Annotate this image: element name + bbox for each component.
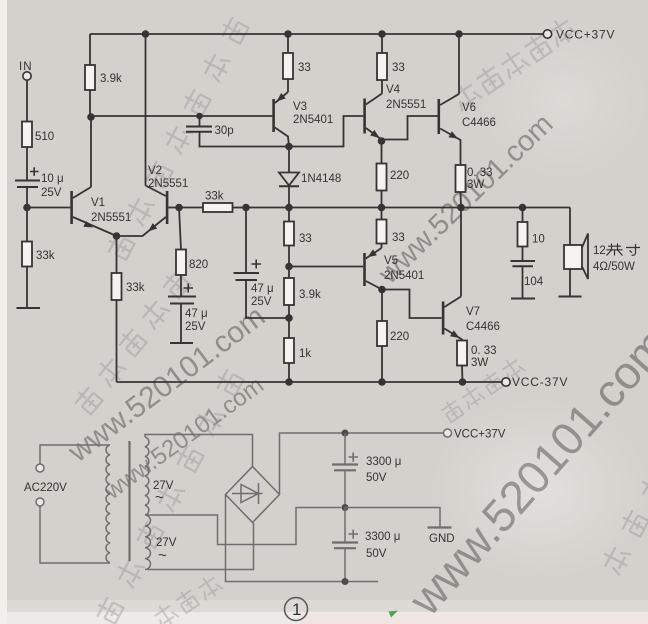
wire C-10u to input node <box>26 187 28 208</box>
label AC220V <box>24 482 67 494</box>
wire 30p top lead <box>199 116 201 127</box>
label 104 <box>524 276 544 288</box>
node output V6 <box>457 204 465 212</box>
watermark D CJK right-center diagonal <box>449 14 579 113</box>
svg-text:220: 220 <box>390 331 409 343</box>
label 10u <box>41 173 64 185</box>
wire input node down to 33k <box>26 208 28 242</box>
wire input node to V1 base <box>27 207 70 209</box>
wire bridge plus output <box>280 433 444 495</box>
svg-text:IN: IN <box>19 61 33 73</box>
transistor V5 2N5401 <box>363 248 382 290</box>
label 33k tail <box>126 282 145 294</box>
label V4 <box>386 84 401 96</box>
label C4466 V7 <box>466 321 500 333</box>
label 47u left <box>185 308 208 320</box>
wire mid rail node B to diode node <box>246 207 289 209</box>
svg-text:33k: 33k <box>36 250 55 262</box>
terminal AC220V bottom <box>36 498 44 506</box>
top VCC+37V rail wire <box>90 33 543 35</box>
wire tail to 33k <box>116 236 118 273</box>
svg-text:1k: 1k <box>299 348 311 360</box>
label 2N5401 V5 <box>384 270 424 282</box>
wire primary bottom <box>40 506 110 563</box>
capacitor 3300u lower <box>332 530 358 549</box>
watermark A2 CJK mid-left diagonal <box>71 268 192 416</box>
watermark I CJK near V7 <box>439 355 526 423</box>
svg-text:2N5551: 2N5551 <box>91 212 131 224</box>
node dot V6 collector on top rail <box>455 30 463 38</box>
watermark K CJK bottom center <box>151 572 224 624</box>
ground speaker <box>559 296 582 298</box>
psu labels <box>24 429 506 565</box>
svg-text:C4466: C4466 <box>466 321 500 333</box>
label 50V lower faint <box>366 548 387 560</box>
ground GND <box>428 526 452 528</box>
svg-text:510: 510 <box>35 131 54 143</box>
label 3300u lower <box>365 531 400 543</box>
wire gnd branch <box>345 508 440 528</box>
transformer primary winding <box>106 445 110 563</box>
label 510 <box>35 131 54 143</box>
label 1k <box>299 348 311 360</box>
label 4ohm/50W <box>593 261 635 273</box>
label 33 V3 <box>298 62 311 74</box>
svg-text:3W: 3W <box>467 179 484 191</box>
wire IN to 510 <box>26 80 28 122</box>
wire 33k fb to node B <box>233 207 247 209</box>
terminal VCC+37V psu <box>444 429 452 437</box>
wire 820 top <box>179 208 181 250</box>
svg-text:820: 820 <box>189 259 208 271</box>
label 3.9k <box>100 73 122 85</box>
node 33/3.9k <box>285 263 293 271</box>
svg-text:3.9k: 3.9k <box>299 289 321 301</box>
label 3W upper <box>467 179 484 191</box>
label 0.33 upper <box>467 167 493 179</box>
node emitter tail <box>113 232 121 240</box>
transistor V3 2N5401 <box>272 92 289 147</box>
resistor 220 upper <box>377 141 387 208</box>
label 33k feedback <box>205 191 224 203</box>
svg-text:V2: V2 <box>148 165 162 177</box>
wire cap1 top lead <box>344 433 346 465</box>
node 1k on negative rail <box>285 378 293 386</box>
wire 3.9k top drop <box>89 34 91 65</box>
node gnd mid <box>342 504 349 511</box>
node input <box>23 204 31 212</box>
wire 104 to ground <box>522 266 524 298</box>
wire secondary bottom <box>147 523 254 570</box>
amplifier labels <box>19 28 640 390</box>
transformer secondary winding lower <box>145 515 150 570</box>
label 3W lower <box>471 357 488 369</box>
figure number 1 circled <box>285 598 308 621</box>
label 50V upper <box>366 472 387 484</box>
transistor V2 2N5551 <box>117 34 180 236</box>
label 27V lower <box>156 537 177 564</box>
label V7 <box>466 306 480 318</box>
svg-text:~: ~ <box>158 547 167 564</box>
label 2N5551 V2 <box>148 178 188 190</box>
resistor 33k feedback <box>203 203 233 212</box>
node diode on mid rail <box>285 204 293 212</box>
svg-text:220: 220 <box>390 170 409 182</box>
svg-text:25V: 25V <box>251 296 272 308</box>
wire 33k to ground <box>26 267 28 309</box>
resistor 33k tail <box>112 273 122 300</box>
resistor 1k <box>284 318 294 382</box>
svg-text:25V: 25V <box>41 187 62 199</box>
wire secondary top to bridge <box>145 435 253 467</box>
node V2 base <box>175 204 183 212</box>
resistor 33 (V3 emitter) <box>283 34 293 92</box>
wire V5 base <box>289 266 363 268</box>
svg-text:C4466: C4466 <box>462 117 496 129</box>
label 33 V4 <box>392 62 405 74</box>
resistor 510 <box>22 122 32 148</box>
label C4466 V6 <box>462 117 496 129</box>
node 220 on negative rail <box>378 378 386 386</box>
label 27V upper <box>153 480 174 506</box>
label 3300u upper <box>366 456 401 468</box>
wire primary top <box>40 445 110 464</box>
label 12inch speaker <box>593 244 640 258</box>
node 30p tap <box>196 113 203 120</box>
svg-text:1: 1 <box>292 600 301 619</box>
resistor 3.9k mid chain <box>284 267 294 319</box>
svg-text:GND: GND <box>429 533 455 545</box>
label 10 <box>532 234 545 246</box>
svg-text:~: ~ <box>155 489 164 506</box>
svg-text:2N5401: 2N5401 <box>384 270 424 282</box>
svg-text:3W: 3W <box>471 357 488 369</box>
label 820 <box>189 259 208 271</box>
svg-text:33k: 33k <box>205 191 224 203</box>
transistor V6 C4466 <box>438 34 461 143</box>
svg-text:10 μ: 10 μ <box>41 173 64 185</box>
svg-text:0. 33: 0. 33 <box>467 167 493 179</box>
label V5 <box>384 255 398 267</box>
ground zobel <box>511 298 535 300</box>
label 0.33 lower <box>471 345 497 357</box>
wire cap1 to gnd node <box>344 470 346 507</box>
terminal VCC+37V <box>543 30 551 38</box>
svg-text:2N5401: 2N5401 <box>293 114 333 126</box>
terminal VCC-37V <box>502 378 510 386</box>
wire cap2 to negative node <box>344 548 346 581</box>
label 2N5551 V4 <box>386 99 426 111</box>
wire 30p bottom to V3 collector node <box>200 132 290 147</box>
label V6 <box>462 102 476 114</box>
negative rail wire <box>117 381 503 383</box>
wire V5 collector to V7 base <box>382 290 442 319</box>
label 220 upper <box>390 170 409 182</box>
label 25V input <box>41 187 62 199</box>
svg-text:33: 33 <box>392 232 405 244</box>
terminal IN <box>23 72 31 80</box>
wire 510 to C-10u <box>26 147 28 181</box>
wire 33k tail to negative rail <box>116 300 118 382</box>
label 30p <box>215 125 234 137</box>
label 1N4148 <box>301 173 341 185</box>
capacitor 3300u/50V upper <box>332 453 358 471</box>
svg-text:104: 104 <box>524 276 544 288</box>
resistor 0.33 3W upper <box>456 143 466 208</box>
node B (47u fb) <box>242 204 250 212</box>
label V2 <box>148 165 162 177</box>
label VCC-37V <box>512 375 568 389</box>
capacitor 47u/25V left <box>168 284 196 304</box>
transistor V4 2N5551 <box>363 94 382 142</box>
svg-text:30p: 30p <box>215 125 234 137</box>
svg-text:12: 12 <box>593 245 606 257</box>
svg-text:25V: 25V <box>185 321 206 333</box>
resistor 33 (V4 collector) <box>377 34 387 94</box>
label 33k input <box>36 250 55 262</box>
resistor 820 <box>176 250 186 276</box>
svg-text:33k: 33k <box>126 282 145 294</box>
resistor 220 lower <box>377 290 387 383</box>
transistor V1 2N5551 <box>70 117 116 236</box>
resistor 33 mid chain <box>284 208 294 267</box>
wire node B to 47u fb <box>245 208 247 274</box>
svg-text:V1: V1 <box>91 197 105 209</box>
svg-text:V4: V4 <box>386 84 401 96</box>
label 220 lower <box>390 331 409 343</box>
node 220 on mid rail <box>378 204 386 212</box>
wire node A to V3 base <box>91 115 272 117</box>
wire 3.9k to node A <box>90 90 91 117</box>
svg-text:VCC-37V: VCC-37V <box>512 375 568 389</box>
ground 47u left <box>170 342 193 344</box>
node V4 emitter <box>378 137 386 145</box>
svg-text:VCC+37V: VCC+37V <box>454 429 506 441</box>
svg-text:V3: V3 <box>293 101 307 113</box>
capacitor 47u/25V feedback <box>234 260 262 281</box>
capacitor 10u/25V <box>15 167 40 187</box>
label 3.9k mid <box>299 289 321 301</box>
transformer core <box>128 441 130 561</box>
label 25V fb <box>251 296 272 308</box>
wire V3 node to V4 base <box>289 116 363 147</box>
wire bridge minus output <box>226 495 379 582</box>
wire cap2 top lead <box>344 508 346 543</box>
node dot 33/V3 on top rail <box>284 30 292 38</box>
label GND <box>429 533 455 545</box>
svg-text:50V: 50V <box>366 548 387 560</box>
svg-text:3.9k: 3.9k <box>100 73 122 85</box>
bridge rectifier <box>226 467 280 523</box>
svg-text:2N5551: 2N5551 <box>148 178 188 190</box>
node dot 33/V4 on top rail <box>378 30 386 38</box>
wire mid rail to speaker <box>569 208 571 246</box>
label 2N5401 V3 <box>293 114 333 126</box>
watermark E CJK bottom-left diagonal <box>93 367 245 624</box>
wire 47u to ground <box>180 304 182 344</box>
terminal AC220V top <box>36 464 44 472</box>
capacitor 30p <box>186 127 212 132</box>
resistor 3.9k <box>85 65 95 90</box>
resistor 0.33 3W lower <box>457 340 467 382</box>
wire 47u fb to node C <box>246 280 289 318</box>
label VCC+37V psu <box>454 429 506 441</box>
capacitor 104 <box>511 261 536 266</box>
svg-text:3300 μ: 3300 μ <box>365 531 400 543</box>
svg-text:V6: V6 <box>462 102 476 114</box>
node cap1 top <box>342 430 349 437</box>
svg-text:4Ω/50W: 4Ω/50W <box>593 261 635 273</box>
svg-text:1N4148: 1N4148 <box>301 173 341 185</box>
ground input <box>17 307 41 309</box>
label V3 <box>293 101 307 113</box>
label IN <box>19 61 33 73</box>
wire speaker to ground <box>569 269 571 297</box>
node A (V1 collector / 3.9k) <box>87 113 95 121</box>
node zobel on mid rail <box>519 204 527 212</box>
watermark A top-left CJK diagonal <box>104 15 250 262</box>
wire V4 emitter to V6 base <box>382 116 438 140</box>
svg-text:33: 33 <box>298 62 311 74</box>
label 25V left <box>185 321 206 333</box>
svg-text:VCC+37V: VCC+37V <box>556 28 615 42</box>
watermark H CJK bottom-right edge <box>598 471 648 576</box>
resistor 33 (V5 emitter) <box>377 208 387 249</box>
node 0.33 on negative rail <box>459 378 467 386</box>
svg-text:0. 33: 0. 33 <box>471 345 497 357</box>
svg-text:47 μ: 47 μ <box>185 308 208 320</box>
node cap2 bottom <box>342 578 349 585</box>
transformer secondary winding upper <box>145 437 149 515</box>
svg-text:V5: V5 <box>384 255 398 267</box>
svg-text:50V: 50V <box>366 472 387 484</box>
wire center tap <box>147 508 341 545</box>
label 33 V5 <box>392 232 405 244</box>
speaker 12in 4ohm/50W <box>564 234 588 280</box>
node V5 collector <box>378 286 386 294</box>
transistor V7 C4466 <box>442 208 462 341</box>
green mark <box>389 611 399 618</box>
diode 1N4148 <box>279 147 299 205</box>
wire 820 to 47u <box>180 275 182 297</box>
resistor 33k input <box>22 242 32 267</box>
wire mid rail V2 base to 33k fb <box>179 207 203 209</box>
node V3 collector <box>285 143 293 151</box>
svg-text:AC220V: AC220V <box>24 482 67 494</box>
label 47u fb <box>251 283 274 295</box>
svg-text:47 μ: 47 μ <box>251 283 274 295</box>
label V1 <box>91 197 105 209</box>
label VCC+37V top <box>556 28 615 42</box>
mid rail output wire <box>289 207 570 209</box>
svg-text:33: 33 <box>392 62 405 74</box>
svg-text:33: 33 <box>299 233 312 245</box>
resistor 10 zobel <box>518 208 528 262</box>
node C (3.9k/1k/47u) <box>285 314 293 322</box>
node dot V2 collector on top rail <box>142 30 150 38</box>
label 2N5551 V1 <box>91 212 131 224</box>
label 33 mid <box>299 233 312 245</box>
svg-text:V7: V7 <box>466 306 480 318</box>
svg-text:2N5551: 2N5551 <box>386 99 426 111</box>
svg-text:3300 μ: 3300 μ <box>366 456 401 468</box>
svg-text:10: 10 <box>532 234 545 246</box>
